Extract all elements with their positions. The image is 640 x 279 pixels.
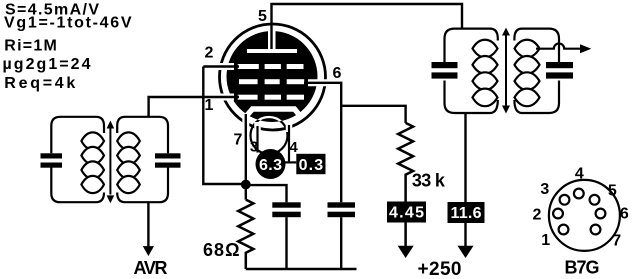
wire pin2 down to cathode rail — [203, 67, 246, 185]
T2 secondary coil L4 — [515, 40, 540, 106]
capacitor C1 (cathode bypass) — [272, 202, 300, 207]
svg-text:+250: +250 — [418, 259, 462, 279]
output arrow — [580, 44, 591, 53]
wire right dropper to +250 — [464, 113, 466, 247]
arrow to +250 (right) — [458, 246, 474, 258]
svg-text:7: 7 — [234, 131, 243, 148]
capacitor C2 (screen bypass) — [328, 202, 356, 207]
tube U1 envelope — [220, 24, 326, 130]
svg-text:2: 2 — [205, 44, 214, 61]
tube U1 anode lead slot — [268, 30, 276, 50]
svg-text:Vg1=-1tot-46V: Vg1=-1tot-46V — [4, 15, 132, 32]
heater link 6.3 to 0.3 — [283, 161, 296, 163]
junction dot cathode node — [241, 180, 251, 190]
wire grid1 pin1 to left transformer riser — [149, 97, 239, 117]
svg-text:7: 7 — [612, 233, 621, 250]
white casing pin2 wire crossing envelope — [201, 63, 234, 70]
svg-text:AVR: AVR — [134, 258, 168, 278]
output wire with hop over cap branch — [536, 43, 581, 48]
bottom rail wire — [246, 268, 357, 271]
wire C2 bottom lead — [340, 217, 342, 269]
white casing pin1 wire crossing envelope — [201, 94, 234, 101]
wire anode pin5 to right transformer top — [272, 4, 463, 49]
svg-text:0.3: 0.3 — [299, 157, 324, 174]
tube data text block — [3, 1, 132, 92]
capacitor of T1 secondary (plates) — [155, 153, 181, 158]
white casing pin3 lead crossing envelope — [254, 122, 261, 133]
tube U1 heater arc (white over disc) — [251, 117, 288, 154]
capacitor of T2 primary (plates) — [432, 62, 458, 68]
wire cathode pin7 down — [245, 114, 247, 200]
tube U1 grid g1 dashes — [238, 95, 304, 100]
B7G pin 2 — [553, 209, 563, 219]
wire screen grid pin6 down to bypass cap C2 — [304, 83, 341, 203]
T2 primary coil L3 — [473, 40, 498, 106]
tube U1 cathode — [246, 109, 301, 117]
svg-text:4: 4 — [289, 139, 298, 156]
svg-text:33 k: 33 k — [412, 171, 446, 191]
wire C1 bottom lead — [285, 217, 287, 269]
heater pin3 lead — [256, 126, 258, 153]
current box 4.45 — [387, 202, 426, 223]
B7G pin 1 — [559, 225, 569, 235]
heater pin4 lead — [288, 125, 290, 162]
B7G pin 5 — [590, 195, 600, 205]
heater voltage disc 6.3 — [256, 149, 286, 179]
T1 secondary coil L2 — [117, 132, 140, 193]
svg-text:2: 2 — [533, 206, 542, 223]
tube U1 anode plate — [247, 49, 297, 53]
svg-text:Ri=1M: Ri=1M — [4, 37, 57, 54]
current box 11.6 — [448, 202, 485, 223]
svg-text:4: 4 — [575, 166, 584, 183]
svg-text:5: 5 — [258, 8, 267, 25]
white casing pin4 lead crossing envelope — [286, 123, 293, 133]
tube U1 grid g2 dashes — [239, 79, 304, 84]
wire AVR dropper — [147, 202, 149, 247]
arrow to AVR — [143, 246, 154, 256]
right IF transformer T2 secondary loop — [514, 29, 559, 113]
wire cathode node to bypass cap C1 — [246, 185, 287, 202]
B7G base outline — [549, 180, 620, 251]
tube U1 heater circle — [251, 117, 288, 154]
capacitor of T2 secondary (plates) — [546, 62, 573, 68]
svg-text:B7G: B7G — [565, 258, 600, 278]
T2 tuning double arrow — [505, 33, 507, 108]
svg-text:6.3: 6.3 — [259, 157, 282, 174]
svg-text:1: 1 — [205, 97, 214, 114]
left IF transformer T1 primary loop — [51, 117, 104, 202]
white casing pin7 lead crossing envelope — [242, 113, 249, 132]
svg-text:1: 1 — [541, 232, 550, 249]
tube U1 grid g3 dashes — [238, 64, 304, 69]
heater current box 0.3 — [296, 154, 325, 174]
svg-text:4.45: 4.45 — [389, 205, 424, 222]
svg-text:11.6: 11.6 — [451, 205, 482, 222]
arrow to +250 (left) — [398, 246, 414, 258]
svg-text:3: 3 — [540, 181, 549, 198]
B7G pin 3 — [560, 195, 570, 205]
capacitor of T1 primary (plates) — [41, 153, 63, 158]
svg-text:6: 6 — [620, 205, 629, 222]
svg-text:5: 5 — [608, 182, 617, 199]
B7G pin 4 — [574, 189, 584, 199]
B7G pin 6 — [596, 209, 606, 219]
B7G pin 7 — [591, 225, 601, 235]
white casing pin6 wire crossing envelope — [308, 79, 332, 86]
resistor R1 68 ohm — [238, 200, 253, 269]
T1 tuning double arrow — [109, 126, 111, 195]
wire screen node to 33k resistor — [341, 106, 405, 123]
T1 primary coil L1 — [81, 132, 104, 193]
resistor R2 33k — [398, 123, 413, 247]
left IF transformer T1 secondary loop — [117, 117, 168, 202]
svg-text:6: 6 — [333, 65, 342, 82]
wire grid3 pin2 stub — [203, 65, 239, 67]
right IF transformer T2 primary loop — [445, 29, 498, 113]
tube U1 black interior disc — [227, 31, 318, 122]
svg-text:68Ω: 68Ω — [203, 240, 240, 260]
